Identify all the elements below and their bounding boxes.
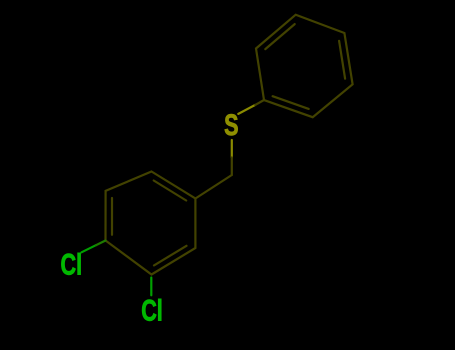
svg-text:S: S [224,107,238,141]
svg-text:Cl: Cl [141,293,163,327]
Cl label (left) [61,247,83,281]
bond S to phenyl: S half bright [238,105,255,114]
bond ring to Cl (bottom), green [150,278,152,296]
bond S to CH2: S half bright [231,140,233,158]
bond ring to Cl (left), ring-side half [96,241,106,246]
inner double bond line (bottom-right edge) [154,246,187,266]
dichlorophenyl ring (bottom left) [106,172,196,275]
S atom label [224,107,238,141]
inner double bond line (right edge) [339,41,345,79]
bond ring to Cl (left), green [82,245,96,252]
svg-text:Cl: Cl [61,247,83,281]
inner double bond line (top-right edge) [154,181,187,201]
Cl label (bottom) [141,293,163,327]
phenyl ring (top right) [256,15,353,118]
inner double bond line (bottom edge) [273,96,309,109]
bond CH2 to aryl ring [195,175,231,199]
bond S to CH2: C half [231,158,233,176]
inner double bond line (top-left edge) [265,24,294,49]
bond S to phenyl: C half [255,100,264,105]
inner double bond line (left edge) [111,198,113,235]
